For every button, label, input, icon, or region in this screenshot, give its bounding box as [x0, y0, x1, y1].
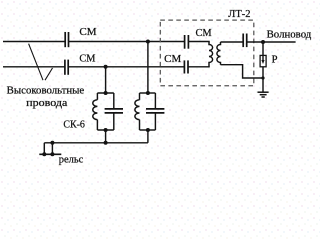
capacitor CM4 on wire W2 inside LT-2 [184, 60, 188, 73]
svg-text:провода: провода [26, 98, 67, 109]
wire W1 top high-voltage line left segment [3, 41, 65, 43]
node secondary-arrester junction [261, 76, 264, 79]
svg-text:Волновод: Волновод [267, 30, 312, 41]
arrester arrow [261, 56, 264, 64]
wire to waveguide [247, 41, 296, 43]
arrester P body [260, 55, 266, 66]
wire secondary top lead [221, 41, 244, 43]
tank circuit SK-6 number 2 [135, 93, 164, 130]
wire arrester to ground [262, 67, 264, 92]
leader line to wire W2 [45, 68, 53, 80]
transformer primary winding [209, 42, 213, 67]
capacitor CM2 on wire W2 [65, 60, 68, 75]
svg-text:СМ: СМ [79, 27, 97, 38]
svg-text:ЛТ-2: ЛТ-2 [228, 9, 250, 20]
capacitor output coupling [243, 34, 247, 48]
node tank2 bottom [146, 128, 150, 132]
wire tank2 drop from W1 [147, 42, 149, 94]
leader line to wire W1 [29, 44, 43, 80]
wire secondary bottom lead [221, 65, 264, 78]
wire W1 middle segment [69, 41, 185, 43]
svg-text:Р: Р [272, 55, 278, 66]
wire W1 segment into transformer [189, 41, 210, 43]
rail connection symbol [39, 143, 61, 155]
svg-text:СМ: СМ [79, 53, 96, 64]
tank circuit SK-6 number 1 [93, 93, 123, 130]
node rail left [42, 152, 46, 156]
svg-text:Высоковольтные: Высоковольтные [7, 86, 85, 97]
wire tank1 drop to rail bus [105, 130, 107, 143]
node wire1-tank2 junction [146, 40, 150, 44]
svg-text:СМ: СМ [164, 54, 182, 65]
node wire2-tank1 junction [104, 65, 108, 69]
node rail right [50, 152, 54, 156]
node waveguide tap [261, 40, 265, 44]
node tank2 top [146, 91, 150, 95]
capacitor CM3 on wire W1 inside LT-2 [185, 35, 189, 49]
ground symbol [258, 92, 269, 97]
wire tank2 drop to rail bus [147, 130, 149, 143]
node rail bus tank1 [104, 141, 108, 145]
svg-text:СМ: СМ [196, 28, 213, 39]
node rail bus start [50, 141, 54, 145]
transformer secondary winding [217, 42, 221, 65]
node tank1 top [104, 91, 108, 95]
wire arrester drop [262, 42, 264, 55]
svg-text:рельс: рельс [59, 154, 84, 165]
node tank1 bottom [104, 128, 108, 132]
wire tank1 drop from W2 [105, 67, 107, 93]
wire W2 middle segment [68, 66, 184, 68]
capacitor CM1 on wire W1 [65, 32, 68, 47]
dashed enclosure LT-2 [160, 20, 254, 86]
svg-text:СК-6: СК-6 [63, 119, 85, 130]
wire W2 segment into transformer [188, 66, 210, 68]
wire W2 lower high-voltage line left segment [3, 66, 65, 68]
wire rail bus [44, 142, 148, 144]
